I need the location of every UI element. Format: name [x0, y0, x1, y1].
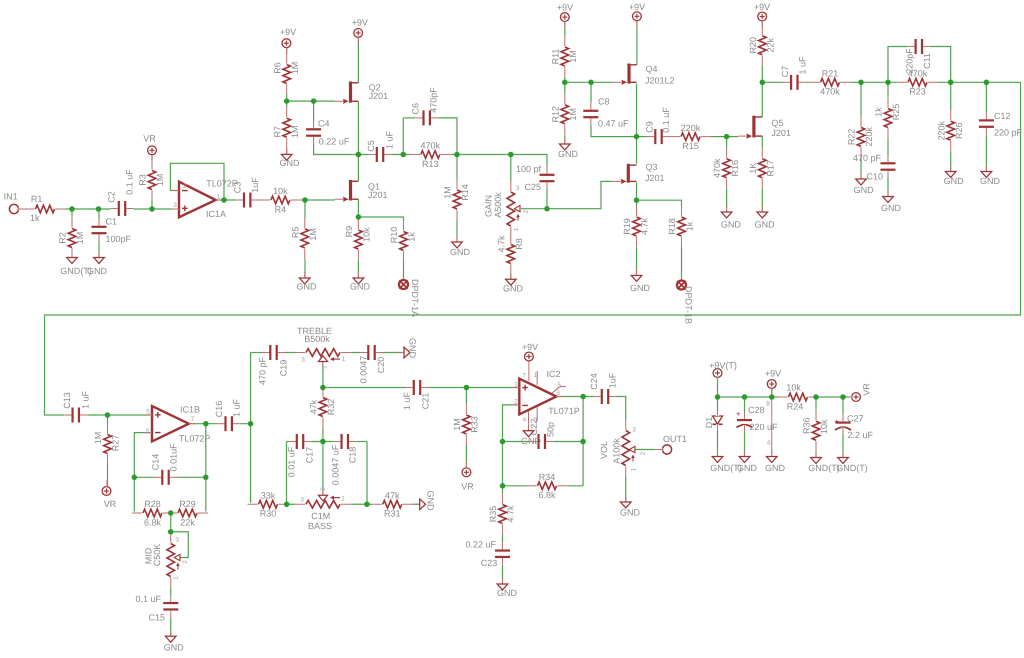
svg-text:R6: R6	[272, 62, 282, 74]
svg-text:47k: 47k	[308, 399, 318, 414]
svg-text:2: 2	[183, 183, 187, 190]
svg-text:4: 4	[522, 417, 526, 424]
svg-text:1M: 1M	[452, 418, 462, 431]
svg-text:100pF: 100pF	[106, 234, 132, 244]
svg-text:6: 6	[146, 428, 150, 435]
svg-text:C15: C15	[148, 613, 165, 623]
svg-text:1: 1	[217, 194, 221, 201]
svg-text:GND(T): GND(T)	[808, 463, 840, 473]
svg-text:TL072P: TL072P	[206, 179, 238, 189]
svg-text:R28: R28	[144, 499, 161, 509]
svg-text:C7: C7	[780, 66, 790, 78]
svg-text:C17: C17	[304, 447, 314, 464]
svg-text:0.0047: 0.0047	[358, 356, 368, 384]
svg-text:220 uF: 220 uF	[750, 422, 779, 432]
svg-text:TL071P: TL071P	[548, 406, 580, 416]
svg-text:1: 1	[173, 576, 180, 580]
svg-text:470 pF: 470 pF	[853, 153, 882, 163]
svg-text:C5: C5	[366, 140, 376, 152]
svg-text:C11: C11	[922, 53, 932, 69]
svg-text:C1M: C1M	[311, 511, 330, 521]
svg-text:R4: R4	[275, 204, 287, 214]
svg-text:R27: R27	[111, 435, 121, 452]
svg-text:1 uF: 1 uF	[402, 391, 412, 410]
svg-text:470pF: 470pF	[428, 87, 438, 113]
svg-text:0.1 uF: 0.1 uF	[661, 107, 671, 133]
svg-text:D1: D1	[704, 417, 714, 429]
svg-text:2: 2	[640, 451, 647, 455]
svg-text:GND: GND	[620, 508, 641, 518]
svg-text:1M: 1M	[290, 125, 300, 138]
svg-text:3: 3	[632, 427, 636, 434]
svg-text:+: +	[834, 417, 839, 426]
svg-text:R25: R25	[891, 104, 901, 121]
svg-text:R33: R33	[470, 416, 480, 433]
svg-text:GND: GND	[426, 491, 436, 512]
svg-text:GND: GND	[164, 643, 185, 653]
svg-text:22k: 22k	[765, 38, 775, 53]
svg-text:0.22 uF: 0.22 uF	[319, 137, 350, 147]
svg-text:4: 4	[767, 440, 771, 447]
svg-text:C8: C8	[598, 97, 610, 107]
svg-text:2: 2	[523, 210, 530, 214]
svg-text:1M: 1M	[568, 108, 578, 121]
svg-text:IC1B: IC1B	[180, 405, 200, 415]
svg-text:10k: 10k	[819, 419, 829, 434]
svg-text:Q3: Q3	[646, 162, 658, 172]
svg-text:3: 3	[514, 382, 518, 389]
svg-text:0.1 uF: 0.1 uF	[135, 594, 161, 604]
svg-text:R15: R15	[682, 141, 699, 151]
svg-text:+9V: +9V	[522, 342, 538, 352]
svg-text:R21: R21	[822, 69, 839, 79]
svg-text:J201L2: J201L2	[645, 75, 675, 85]
svg-text:R29: R29	[179, 499, 196, 509]
svg-text:1M: 1M	[155, 174, 165, 187]
svg-text:A500k: A500k	[493, 192, 503, 218]
svg-text:C13: C13	[62, 392, 72, 409]
svg-text:220k: 220k	[864, 127, 874, 147]
svg-text:R9: R9	[344, 226, 354, 238]
svg-text:C4: C4	[318, 118, 330, 128]
svg-text:R35: R35	[488, 506, 498, 523]
svg-text:IC2: IC2	[547, 369, 561, 379]
svg-text:C12: C12	[994, 111, 1011, 121]
svg-text:R8: R8	[514, 238, 524, 250]
svg-text:GND: GND	[944, 176, 965, 186]
svg-text:IN1: IN1	[4, 192, 18, 202]
svg-text:0.1 uF: 0.1 uF	[124, 169, 134, 195]
svg-text:0.47 uF: 0.47 uF	[598, 119, 629, 129]
svg-text:J201: J201	[645, 173, 665, 183]
svg-text:VR: VR	[861, 383, 871, 396]
svg-text:10k: 10k	[362, 227, 372, 242]
svg-text:R19: R19	[622, 218, 632, 235]
svg-text:GND: GND	[450, 247, 471, 257]
svg-text:3: 3	[175, 537, 179, 544]
svg-text:VOL: VOL	[599, 441, 609, 459]
svg-text:R32: R32	[326, 399, 336, 416]
svg-text:+9V: +9V	[754, 2, 770, 12]
svg-text:R24: R24	[787, 401, 804, 411]
svg-text:1M: 1M	[75, 232, 85, 245]
svg-text:1M: 1M	[308, 228, 318, 241]
svg-text:R23: R23	[909, 87, 926, 97]
svg-text:+9V: +9V	[765, 368, 781, 378]
svg-text:R7: R7	[272, 126, 282, 138]
svg-text:3: 3	[173, 202, 177, 209]
svg-text:C10: C10	[866, 172, 883, 182]
svg-text:Q4: Q4	[646, 64, 658, 74]
svg-text:C1: C1	[106, 217, 118, 227]
svg-text:GND: GND	[721, 220, 742, 230]
svg-text:GND: GND	[558, 149, 579, 159]
svg-text:C25: C25	[524, 182, 541, 192]
svg-text:VR: VR	[143, 134, 156, 144]
svg-text:C24: C24	[589, 373, 599, 390]
svg-text:R17: R17	[765, 160, 775, 177]
svg-text:R18: R18	[667, 218, 677, 235]
svg-text:1k: 1k	[30, 213, 40, 223]
svg-text:GND: GND	[521, 436, 542, 446]
svg-text:B500k: B500k	[304, 334, 330, 344]
svg-text:R31: R31	[384, 509, 401, 519]
svg-text:+: +	[736, 410, 741, 419]
svg-text:0.01uF: 0.01uF	[168, 443, 178, 472]
svg-text:R20: R20	[748, 37, 758, 54]
svg-text:+9V: +9V	[280, 27, 296, 37]
svg-text:1M: 1M	[443, 186, 453, 199]
svg-text:33k: 33k	[261, 490, 276, 500]
svg-text:A100k: A100k	[611, 438, 621, 464]
svg-text:10k: 10k	[786, 383, 801, 393]
svg-text:R1: R1	[31, 194, 43, 204]
svg-text:1uF: 1uF	[250, 177, 260, 193]
svg-text:R22: R22	[847, 129, 857, 146]
svg-text:C19: C19	[278, 360, 288, 377]
svg-text:1 uF: 1 uF	[80, 390, 90, 409]
svg-text:R16: R16	[730, 160, 740, 177]
svg-text:R12: R12	[550, 106, 560, 123]
svg-text:2: 2	[514, 399, 518, 406]
svg-text:R2: R2	[58, 232, 68, 244]
svg-text:C9: C9	[644, 121, 654, 133]
svg-text:7: 7	[191, 416, 195, 423]
svg-text:IC1A: IC1A	[206, 209, 226, 219]
svg-text:2.2 uF: 2.2 uF	[848, 430, 874, 440]
svg-text:GND(T): GND(T)	[836, 463, 868, 473]
svg-text:GND: GND	[350, 282, 371, 292]
svg-text:+9V: +9V	[352, 17, 368, 27]
svg-text:GND: GND	[87, 266, 108, 276]
svg-text:C14: C14	[150, 454, 160, 471]
svg-text:1 uF: 1 uF	[384, 130, 394, 149]
svg-text:+9V(T): +9V(T)	[709, 360, 737, 370]
svg-text:100 pf: 100 pf	[516, 164, 542, 174]
svg-text:R26: R26	[954, 122, 964, 139]
svg-text:R36: R36	[802, 417, 812, 434]
svg-text:6.8k: 6.8k	[144, 517, 162, 527]
svg-text:C21: C21	[420, 393, 430, 410]
svg-text:3: 3	[300, 497, 304, 504]
svg-text:R30: R30	[260, 509, 277, 519]
svg-text:R13: R13	[422, 159, 439, 169]
svg-text:220k: 220k	[936, 120, 946, 140]
svg-text:220k: 220k	[681, 123, 701, 133]
svg-text:GND: GND	[408, 338, 418, 359]
svg-text:6.8k: 6.8k	[538, 490, 556, 500]
svg-text:R14: R14	[460, 184, 470, 201]
svg-text:2: 2	[320, 487, 327, 491]
svg-text:1M: 1M	[290, 62, 300, 75]
svg-text:4.7k: 4.7k	[496, 235, 506, 253]
svg-text:1M: 1M	[568, 50, 578, 63]
svg-text:8: 8	[766, 401, 770, 408]
svg-text:DPDT-1A: DPDT-1A	[410, 279, 420, 317]
svg-text:3: 3	[301, 357, 305, 364]
svg-text:GND: GND	[497, 588, 518, 598]
svg-text:1uF: 1uF	[607, 372, 617, 388]
svg-text:C18: C18	[347, 447, 357, 464]
svg-text:GND: GND	[280, 158, 301, 168]
svg-text:4.7k: 4.7k	[640, 217, 650, 235]
svg-text:OUT1: OUT1	[663, 434, 687, 444]
svg-text:470k: 470k	[421, 141, 441, 151]
svg-text:7: 7	[522, 373, 526, 380]
svg-text:0.01 uF: 0.01 uF	[286, 446, 296, 477]
svg-text:470k: 470k	[712, 158, 722, 178]
svg-text:R11: R11	[550, 49, 560, 65]
svg-text:2: 2	[322, 365, 329, 369]
svg-text:1k: 1k	[685, 221, 695, 231]
svg-text:3: 3	[516, 185, 520, 192]
svg-text:C16: C16	[214, 401, 224, 418]
svg-text:DPDT-1B: DPDT-1B	[684, 286, 694, 324]
svg-text:1: 1	[341, 496, 345, 503]
svg-text:220pF: 220pF	[904, 48, 914, 74]
svg-text:10k: 10k	[273, 186, 288, 196]
svg-text:1: 1	[342, 356, 346, 363]
svg-text:2: 2	[182, 560, 189, 564]
svg-text:1 uF: 1 uF	[797, 56, 807, 75]
svg-text:R34: R34	[539, 472, 556, 482]
svg-text:C2: C2	[106, 191, 116, 203]
svg-text:C6: C6	[410, 103, 420, 115]
svg-text:C27: C27	[847, 414, 864, 424]
svg-text:470k: 470k	[820, 87, 840, 97]
svg-text:VR: VR	[104, 499, 117, 509]
svg-text:TL072P: TL072P	[179, 434, 211, 444]
svg-text:GND: GND	[297, 282, 318, 292]
svg-text:4.7k: 4.7k	[506, 505, 516, 523]
svg-text:1: 1	[513, 227, 520, 231]
svg-text:GND: GND	[980, 176, 1001, 186]
svg-text:C50K: C50K	[152, 544, 162, 567]
svg-text:+9V: +9V	[557, 2, 573, 12]
svg-text:R5: R5	[290, 227, 300, 239]
svg-text:GND: GND	[737, 463, 758, 473]
svg-text:50p: 50p	[545, 422, 555, 437]
svg-text:6: 6	[556, 390, 560, 397]
svg-text:0.0047 uF: 0.0047 uF	[330, 444, 340, 485]
svg-text:22k: 22k	[180, 517, 195, 527]
svg-text:1 uF: 1 uF	[231, 398, 241, 417]
svg-text:R3: R3	[138, 174, 148, 186]
svg-text:GND: GND	[854, 185, 875, 195]
svg-text:C23: C23	[481, 558, 498, 568]
svg-text:J201: J201	[369, 91, 389, 101]
svg-text:C28: C28	[748, 405, 765, 415]
svg-text:GND: GND	[630, 283, 651, 293]
svg-text:470 pF: 470 pF	[257, 356, 267, 385]
svg-text:47k: 47k	[385, 490, 400, 500]
svg-text:Q5: Q5	[771, 118, 783, 128]
svg-text:J201: J201	[368, 190, 388, 200]
svg-text:R10: R10	[389, 227, 399, 244]
svg-text:5: 5	[146, 409, 150, 416]
svg-text:GND: GND	[881, 203, 902, 213]
svg-text:VR: VR	[461, 482, 474, 492]
svg-text:1K: 1K	[748, 163, 758, 174]
svg-text:1M: 1M	[93, 432, 103, 445]
svg-text:1k: 1k	[407, 232, 417, 242]
svg-text:+9V: +9V	[629, 2, 645, 12]
svg-text:C20: C20	[376, 357, 386, 374]
svg-text:0.22 uF: 0.22 uF	[465, 540, 496, 550]
svg-text:BASS: BASS	[308, 521, 332, 531]
svg-text:GND: GND	[503, 284, 524, 294]
svg-text:GND: GND	[755, 220, 776, 230]
svg-text:220 pF: 220 pF	[994, 128, 1023, 138]
svg-text:1k: 1k	[874, 107, 884, 117]
svg-text:1: 1	[631, 467, 638, 471]
svg-text:GND: GND	[765, 463, 786, 473]
svg-text:J201: J201	[771, 128, 791, 138]
